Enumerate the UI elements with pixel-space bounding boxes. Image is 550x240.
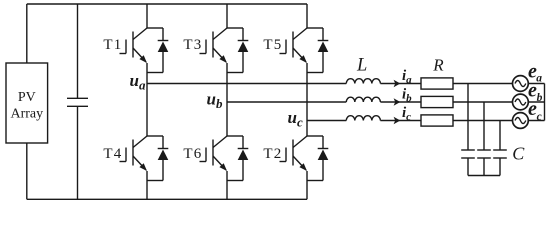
capacitor Cdc (DC-link) [67,4,88,199]
diode D4 (antiparallel of T4) [147,136,168,181]
capacitor C (phase c branch) [493,121,507,176]
transistor T5 (IGBT) [263,28,307,73]
svg-text:PV: PV [18,90,36,105]
diode D3 (antiparallel of T3) [227,28,248,73]
current arrow i_b [394,87,413,106]
wire: capacitor star point [468,175,500,177]
transistor T4 (IGBT) [103,136,147,181]
current arrow i_c [394,105,412,124]
wire: leg B midpoint (phase b node) [226,73,228,137]
svg-text:ub: ub [207,90,223,112]
wire: leg C emitter to DC- rail [306,181,308,200]
svg-text:R: R [432,56,444,75]
wire: DC- bottom rail [27,198,307,200]
diode D1 (antiparallel of T1) [147,28,168,73]
wire: leg C collector stub [306,4,308,28]
svg-text:c: c [537,111,542,123]
svg-text:ib: ib [402,87,412,105]
svg-text:T1: T1 [103,37,122,53]
wire: PV array negative lead [26,143,28,199]
inductor L (phase c) [346,116,380,121]
wire: leg A collector stub [146,4,148,28]
inductor L (phase a) [346,79,380,84]
transistor T1 (IGBT) [103,28,147,73]
svg-text:T3: T3 [183,37,202,53]
svg-text:T4: T4 [103,146,122,162]
AC source e_a [513,61,545,92]
diode D2 (antiparallel of T2) [307,136,328,181]
wire: leg B emitter to DC- rail [226,181,228,200]
wire: leg A midpoint (phase a node) [146,73,148,137]
wire: phase c line [307,120,513,122]
capacitor C (phase a branch) [461,84,475,176]
wire: phase a line [147,83,513,85]
svg-text:uc: uc [288,108,303,130]
current arrow i_a [394,68,413,87]
transistor T2 (IGBT) [263,136,307,181]
wire: leg C midpoint (phase c node) [306,73,308,137]
svg-text:ia: ia [402,68,412,86]
wire: leg A emitter to DC- rail [146,181,148,200]
PV array source [6,63,48,143]
diode D5 (antiparallel of T5) [307,28,328,73]
svg-text:ic: ic [402,105,411,123]
svg-text:T5: T5 [263,37,282,53]
transistor T3 (IGBT) [183,28,227,73]
svg-text:C: C [512,144,525,164]
transistor T6 (IGBT) [183,136,227,181]
wire: grid neutral bus [544,84,546,121]
svg-text:T6: T6 [183,146,202,162]
svg-text:Array: Array [10,107,43,122]
wire: PV array positive lead [26,4,28,63]
AC source e_b [513,79,545,110]
AC source e_c [513,98,545,128]
svg-text:L: L [356,55,367,75]
wire: leg B collector stub [226,4,228,28]
resistor R (phase c) [421,115,453,126]
wire: phase b line [227,101,513,103]
resistor R (phase b) [421,96,453,107]
diode D6 (antiparallel of T6) [227,136,248,181]
capacitor C (phase b branch) [477,102,491,176]
svg-text:b: b [537,92,543,104]
svg-text:a: a [536,73,542,85]
svg-text:ua: ua [130,71,146,93]
resistor R (phase a) [421,78,453,89]
svg-text:T2: T2 [263,146,282,162]
wire: DC+ top rail [27,3,307,5]
inductor L (phase b) [346,97,380,102]
